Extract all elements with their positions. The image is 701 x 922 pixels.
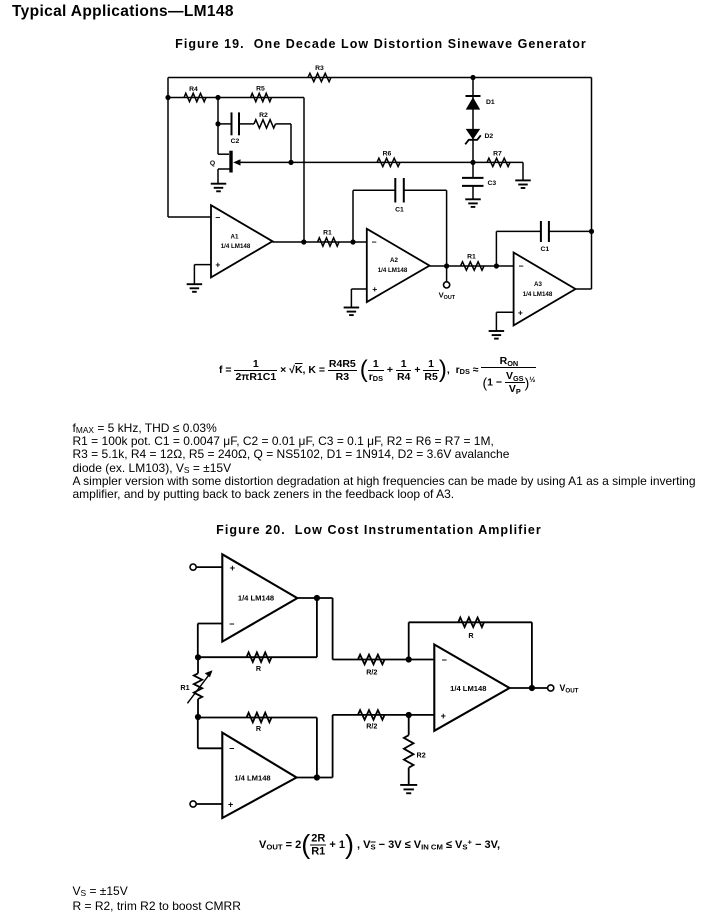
wire A1 non-inverting input to ground <box>194 265 211 285</box>
wire A3 inverting input <box>496 265 513 267</box>
svg-text:R2: R2 <box>259 112 268 119</box>
wire B2 feedback row <box>198 718 317 778</box>
wire to op-amp B1 + input <box>196 566 222 568</box>
wire gate net from arrow to D1/D2 node with R6 <box>241 161 474 163</box>
node junction B3 inverting input <box>406 656 412 662</box>
svg-text:R: R <box>256 724 262 733</box>
svg-text:R6: R6 <box>383 150 392 157</box>
svg-text:+: + <box>518 308 523 318</box>
svg-text:1/4 LM148: 1/4 LM148 <box>238 594 274 603</box>
op-amp A3 <box>514 253 576 326</box>
wire A1 output row <box>273 241 354 243</box>
svg-text:+: + <box>228 799 233 809</box>
svg-text:C2: C2 <box>231 138 240 145</box>
figure 19 caption <box>175 37 587 51</box>
resistor R2 <box>254 112 276 128</box>
op-amp B3 (1/4 LM148 right) <box>434 645 509 731</box>
svg-text:+: + <box>215 260 220 270</box>
svg-text:−: − <box>519 261 524 271</box>
diode D1 <box>466 96 495 110</box>
formula figure 20 <box>259 830 500 861</box>
node junction B3 output <box>529 685 535 691</box>
svg-text:R1: R1 <box>467 253 476 260</box>
node junction top of diode branch <box>470 75 475 80</box>
formula figure 19 <box>219 350 536 390</box>
ground at A2 + input <box>344 308 360 316</box>
node junction R1 pot top <box>195 654 201 660</box>
node junction at C2 tap <box>215 121 220 126</box>
wire B1 inverting input <box>198 624 223 658</box>
svg-text:A2: A2 <box>390 257 398 264</box>
wire C1 feedback loop of A2 <box>353 190 447 266</box>
node junction feedback/top net <box>589 229 594 234</box>
ground at R7 <box>515 180 531 188</box>
wire A2 output row <box>430 265 497 267</box>
wire B1 output <box>297 597 332 599</box>
svg-text:+: + <box>230 563 235 573</box>
wire from R5 down to A1 output node <box>303 98 305 243</box>
svg-text:C1: C1 <box>395 207 404 214</box>
node junction R2 top / B3 + input <box>406 712 412 718</box>
wire C1 feedback loop of A3 <box>496 231 591 266</box>
svg-text:R/2: R/2 <box>366 667 377 676</box>
resistor R1 between A2 and A3 <box>461 253 485 270</box>
wire A3 non-inverting input to ground <box>496 312 513 331</box>
svg-text:R2: R2 <box>417 751 426 760</box>
node junction A2 inverting input <box>350 239 355 244</box>
capacitor C1 of A2 <box>395 178 404 214</box>
wire C2 to R2 <box>239 123 254 125</box>
ground at A3 + input <box>489 331 505 339</box>
resistor R/2 upper <box>358 655 385 677</box>
resistor R7 <box>473 151 523 167</box>
svg-text:1/4 LM148: 1/4 LM148 <box>378 267 408 274</box>
notes under figure 19 <box>73 422 696 502</box>
wire B3 feedback loop <box>409 622 532 688</box>
wire top net from A3 output to R3 and D1 branch <box>168 77 592 79</box>
svg-text:A1: A1 <box>231 234 239 241</box>
ground below R2 <box>400 785 417 793</box>
svg-text:R/2: R/2 <box>366 722 377 731</box>
svg-text:R5: R5 <box>256 86 265 93</box>
wire A2 inverting input <box>353 241 367 243</box>
node junction B2 output <box>314 774 320 780</box>
wire R4 row <box>168 97 304 99</box>
op-amp A2 <box>367 229 430 302</box>
capacitor C2 <box>231 112 240 144</box>
svg-text:R3: R3 <box>315 65 324 72</box>
svg-text:1/4 LM148: 1/4 LM148 <box>234 774 270 783</box>
svg-text:D2: D2 <box>485 133 494 140</box>
page header <box>12 3 234 21</box>
resistor R4 <box>184 86 206 102</box>
svg-text:−: − <box>229 619 234 629</box>
resistor R1 between A1 and A2 <box>318 229 340 246</box>
wire R2 right lead down to gate net <box>276 124 292 162</box>
resistor R feedback of B3 <box>458 618 484 640</box>
svg-text:1/4 LM148: 1/4 LM148 <box>221 243 251 250</box>
diode D2 avalanche <box>465 129 493 144</box>
resistor R2 <box>404 715 426 785</box>
node junction diodes/R6/R7/C3 <box>470 160 475 165</box>
resistor R5 <box>251 86 272 102</box>
wire to VOUT terminal <box>446 266 448 282</box>
svg-text:R: R <box>468 631 474 640</box>
svg-text:C3: C3 <box>488 180 497 187</box>
node junction R1 pot bottom <box>195 714 201 720</box>
wire C2 left lead <box>218 123 232 125</box>
svg-text:D1: D1 <box>486 99 495 106</box>
resistor R feedback of B2 <box>247 713 272 734</box>
wire from R4/R5 node down to Q drain <box>218 98 229 155</box>
node junction B1 output <box>314 595 320 601</box>
node junction A2 output <box>444 263 449 268</box>
node junction between R4 and R5 <box>215 95 220 100</box>
svg-text:−: − <box>229 744 234 754</box>
svg-text:C1: C1 <box>540 246 549 253</box>
wire to op-amp B2 + input <box>196 803 222 805</box>
wire R7 to ground <box>522 162 524 180</box>
resistor R feedback of B1 <box>247 652 272 672</box>
terminal input top of figure 20 <box>190 564 196 570</box>
ground below C3 <box>465 199 481 207</box>
wire B1 feedback down-left <box>198 598 317 657</box>
node junction A1 output / R5 branch <box>301 239 306 244</box>
op-amp B2 (1/4 LM148 bottom) <box>222 733 296 818</box>
terminal input bottom of figure 20 <box>190 801 196 807</box>
resistor R6 <box>377 150 400 166</box>
node junction at R4 left <box>165 95 170 100</box>
svg-text:−: − <box>442 655 447 665</box>
svg-text:A3: A3 <box>534 281 542 288</box>
svg-text:VOUT: VOUT <box>439 291 456 302</box>
node junction gate/R2 <box>288 160 293 165</box>
terminal VOUT of figure 19 <box>439 282 456 301</box>
terminal VOUT of figure 20 <box>548 683 579 695</box>
svg-text:R1: R1 <box>180 683 189 692</box>
wire diode branch vertical <box>472 78 474 163</box>
wire A2 non-inverting input to ground <box>351 289 366 308</box>
wire left vertical from top wire to A1 inverting input <box>167 78 169 218</box>
svg-text:R4: R4 <box>189 86 198 93</box>
op-amp B1 (1/4 LM148 top) <box>222 554 297 641</box>
node junction A3 inverting input <box>494 263 499 268</box>
wire A1 inverting input <box>168 216 211 218</box>
wire A3 output to top net <box>576 78 592 290</box>
svg-text:VOUT: VOUT <box>560 683 579 695</box>
svg-text:R: R <box>256 664 262 673</box>
ground below Q <box>211 184 227 192</box>
svg-text:+: + <box>441 711 446 721</box>
wire B2 output to lower R/2 row <box>333 715 435 778</box>
svg-text:+: + <box>372 284 377 294</box>
ground at A1 + input <box>187 284 203 292</box>
capacitor C3 <box>462 162 496 186</box>
wire B1 output to upper R/2 row <box>333 598 435 660</box>
svg-text:R1: R1 <box>323 229 332 236</box>
wire Q source to ground <box>217 169 219 184</box>
transistor Q JFET <box>210 151 241 173</box>
wire B3 output <box>510 687 548 689</box>
svg-text:−: − <box>372 237 377 247</box>
capacitor C1 of A3 <box>540 221 549 253</box>
wire C3 to ground <box>472 186 474 199</box>
svg-text:Q: Q <box>210 160 215 167</box>
svg-text:R7: R7 <box>493 151 502 158</box>
resistor R3 <box>308 65 331 82</box>
wire B2 inverting input <box>198 717 223 748</box>
wire B2 output <box>297 777 333 779</box>
potentiometer R1 <box>180 657 212 717</box>
closing notes <box>73 884 241 914</box>
figure 20 caption <box>216 523 542 537</box>
svg-text:1/4 LM148: 1/4 LM148 <box>523 291 553 298</box>
op-amp A1 <box>211 205 273 277</box>
svg-text:1/4 LM148: 1/4 LM148 <box>450 684 486 693</box>
svg-text:−: − <box>215 212 220 222</box>
resistor R/2 lower <box>358 710 385 730</box>
